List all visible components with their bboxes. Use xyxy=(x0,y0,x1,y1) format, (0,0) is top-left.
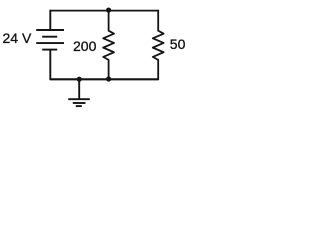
svg-text:50: 50 xyxy=(170,36,186,52)
svg-text:200: 200 xyxy=(73,38,97,54)
svg-text:24 V: 24 V xyxy=(3,30,32,46)
